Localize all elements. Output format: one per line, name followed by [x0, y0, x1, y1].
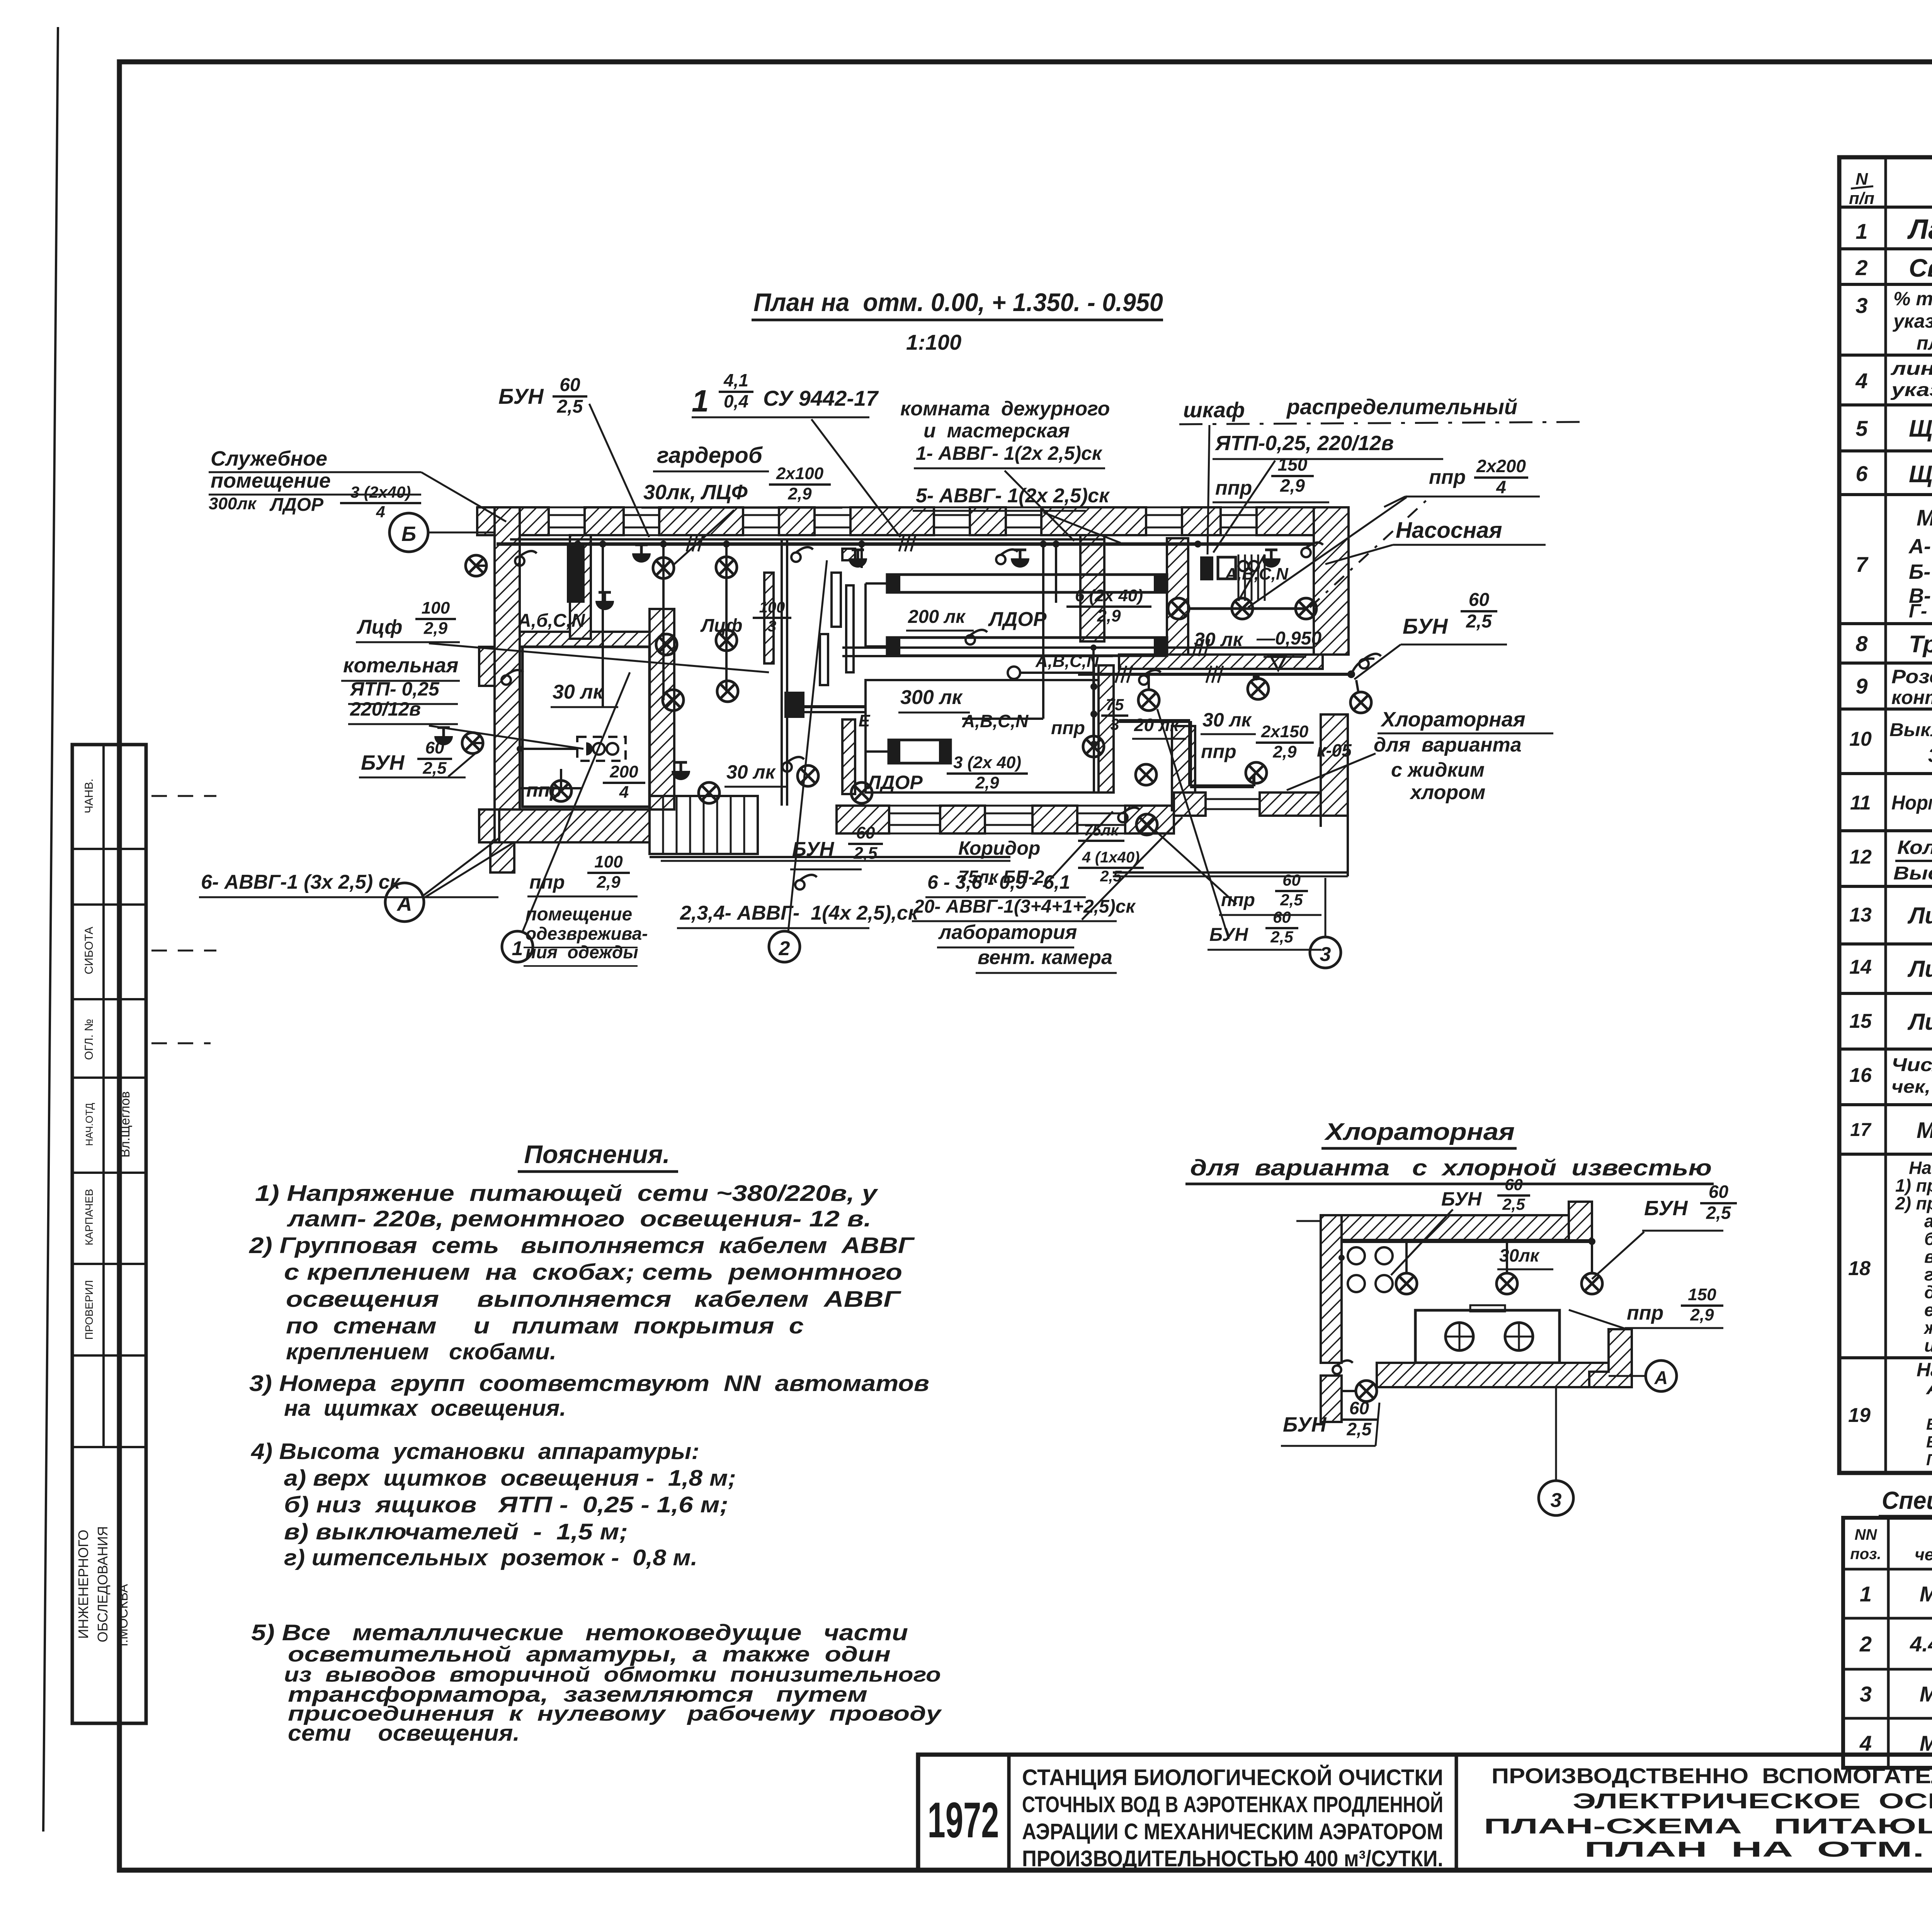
svg-text:8: 8: [1855, 631, 1868, 656]
svg-text:ПЛАН-СХЕМА ПИТАЮЩЕЙ СЕТИ: ПЛАН-СХЕМА ПИТАЮЩЕЙ СЕТИ: [1484, 1814, 1932, 1838]
svg-text:ПРОИЗВОДСТВЕННО ВСПОМОГАТЕЛЬН: ПРОИЗВОДСТВЕННО ВСПОМОГАТЕЛЬНОЕ_ЗДАНИЕ: [1492, 1764, 1932, 1788]
svg-text:60: 60: [1349, 1398, 1369, 1418]
svg-text:30 лк: 30 лк: [1202, 709, 1252, 731]
svg-text:18: 18: [1848, 1257, 1871, 1280]
svg-text:6 (2х 40): 6 (2х 40): [1075, 586, 1143, 605]
svg-text:9: 9: [1855, 674, 1867, 698]
svg-text:г.МОСКВА: г.МОСКВА: [116, 1584, 131, 1646]
svg-text:100: 100: [422, 599, 450, 617]
svg-text:Насосная: Насосная: [1396, 518, 1502, 543]
svg-text:СТОЧНЫХ ВОД В АЭРОТЕНКАХ ПРОДЛ: СТОЧНЫХ ВОД В АЭРОТЕНКАХ ПРОДЛЕННОЙ: [1022, 1792, 1443, 1817]
bottom labels: [199, 896, 498, 898]
svg-text:10: 10: [1849, 728, 1872, 750]
svg-text:А- номер группы, соответствую: А- номер группы, соответствующий номеру …: [1926, 1379, 1932, 1398]
svg-text:3) брызгонепроницаемый однопо: 3) брызгонепроницаемый однополюсный: [1928, 745, 1932, 766]
svg-text:15: 15: [1849, 1010, 1872, 1032]
axis circle 3: [1325, 878, 1327, 937]
svg-text:Линия сети аварийного освещ: Линия сети аварийного освещения: [1907, 956, 1932, 982]
svg-text:освещения выполняется ка: освещения выполняется кабелем АВВГ: [286, 1287, 901, 1312]
small plan wire: [1342, 1240, 1592, 1243]
svg-text:60: 60: [1282, 871, 1301, 889]
riser knot at corridor end: [804, 705, 866, 708]
svg-text:4,1: 4,1: [723, 370, 748, 390]
svg-text:Выключатель защищенный 1)одноп: Выключатель защищенный 1)однополюсный 2)…: [1889, 720, 1932, 740]
svg-text:а)- маркировка (N) линии;: а)- маркировка (N) линии;: [1924, 1211, 1932, 1231]
svg-text:5- АВВГ- 1(2х 2,5)ск: 5- АВВГ- 1(2х 2,5)ск: [916, 485, 1110, 507]
svg-text:200: 200: [609, 762, 638, 781]
svg-text:ПЛАН НА ОТМ. ±0.00.: ПЛАН НА ОТМ. ±0.00.: [1584, 1837, 1932, 1861]
svg-text:3: 3: [1551, 1489, 1562, 1512]
svg-text:ппр: ппр: [526, 779, 562, 801]
svg-text:линия из люминесцентных светил: линия из люминесцентных светильников на …: [1890, 359, 1932, 379]
BUN bottom center: [790, 869, 862, 871]
svg-text:к-05: к-05: [1317, 740, 1352, 760]
svg-text:2,5: 2,5: [1502, 1195, 1525, 1213]
svg-text:указывается на: указывается на: [1892, 310, 1932, 332]
left labels: LCF 100/2.9: [356, 641, 460, 643]
small plan axis A: [1609, 1375, 1646, 1377]
corridor top thin wall + wire: [842, 646, 1314, 649]
svg-text:3) Номера групп соответствую: 3) Номера групп соответствуют NN автомат…: [249, 1371, 929, 1396]
small plan bottom walls: [1589, 1329, 1632, 1387]
khloratornaya thick wire U: [1119, 719, 1190, 723]
svg-text:12: 12: [1849, 846, 1872, 868]
svg-text:А,В,С,N: А,В,С,N: [962, 711, 1029, 731]
svg-text:3: 3: [768, 618, 776, 635]
svg-text:ппр: ппр: [1429, 466, 1466, 488]
svg-text:СТАНЦИЯ БИОЛОГИЧЕСКОЙ ОЧИСТКИ: СТАНЦИЯ БИОЛОГИЧЕСКОЙ ОЧИСТКИ: [1022, 1765, 1443, 1790]
svg-text:2х200: 2х200: [1476, 456, 1526, 476]
svg-text:б) - расчетная нагрузка, квт;: б) - расчетная нагрузка, квт;: [1924, 1229, 1932, 1249]
svg-text:КАРПАЧЕВ: КАРПАЧЕВ: [83, 1189, 95, 1245]
svg-text:А,б,С,N: А,б,С,N: [517, 611, 585, 631]
label YATP-0,25 220/12v: [1213, 458, 1443, 460]
svg-text:БУН: БУН: [1441, 1188, 1482, 1210]
svg-text:Служебное: Служебное: [211, 447, 327, 470]
svg-text:Б- установленная мощность, к: Б- установленная мощность, квт;: [1909, 560, 1932, 583]
specification table: [1843, 1518, 1932, 1768]
svg-text:2,9: 2,9: [1280, 475, 1305, 495]
svg-text:на щитках освещения.: на щитках освещения.: [284, 1396, 566, 1421]
svg-text:4) Высота установки аппарату: 4) Высота установки аппаратуры:: [251, 1439, 699, 1464]
svg-text:2,5: 2,5: [557, 396, 583, 417]
svg-text:хлором: хлором: [1409, 781, 1485, 804]
svg-text:г) штепсельных розеток - 0,8: г) штепсельных розеток - 0,8 м.: [284, 1545, 697, 1570]
svg-text:и) - способ проводки: и) - способ проводки: [1924, 1335, 1932, 1355]
svg-text:Число проводов линии указыв: Число проводов линии указывается числом …: [1891, 1055, 1932, 1075]
svg-text:А: А: [396, 892, 412, 915]
svg-text:7: 7: [1855, 552, 1869, 577]
svg-text:2: 2: [1855, 255, 1867, 280]
nasosnaya interior stair detail: [1238, 554, 1240, 601]
small plan equipment (two tanks): [1446, 1336, 1473, 1338]
svg-text:ламп- 220в, ремонтного освеще: ламп- 220в, ремонтного освещения- 12 в.: [286, 1206, 871, 1231]
svg-text:60: 60: [1273, 908, 1291, 926]
36v drops and lamps: [1148, 674, 1150, 690]
svg-text:План на отм. 0.00, + 1.350. -: План на отм. 0.00, + 1.350. - 0.950: [753, 288, 1163, 316]
svg-text:помещение: помещение: [526, 904, 632, 925]
label nasosnaya: [1393, 544, 1546, 546]
svg-text:5: 5: [1855, 416, 1868, 440]
svg-text:Г- тип пункта или щитка: Г- тип пункта или щитка: [1909, 600, 1932, 622]
svg-text:Хлораторная: Хлораторная: [1324, 1119, 1515, 1145]
nasosnaya lamp line: [1188, 607, 1306, 610]
svg-text:ппр: ппр: [1051, 718, 1085, 738]
svg-text:60: 60: [1469, 590, 1490, 610]
svg-text:ппр: ппр: [1627, 1302, 1663, 1324]
svg-text:осветительной арматуры, а т: осветительной арматуры, а также один: [288, 1642, 891, 1666]
svg-text:Надписи на линиях группово: Надписи на линиях групповой сети:: [1917, 1359, 1932, 1381]
svg-text:4: 4: [1496, 477, 1506, 497]
wire to YATP box: [520, 787, 582, 789]
svg-text:150: 150: [1278, 454, 1308, 474]
svg-text:1- АВВГ- 1(2х 2,5)ск: 1- АВВГ- 1(2х 2,5)ск: [916, 442, 1103, 464]
svg-text:контактом брызгонепроница: контактом брызгонепроницаемая: [1891, 687, 1932, 708]
right wall bottom step: [1347, 816, 1349, 876]
svg-text:комната дежурного: комната дежурного: [900, 398, 1110, 420]
svg-text:ЯТП-0,25, 220/12в: ЯТП-0,25, 220/12в: [1214, 432, 1394, 455]
svg-text:ЛДОР: ЛДОР: [269, 495, 324, 515]
svg-text:А,В,С,N: А,В,С,N: [1035, 652, 1099, 671]
svg-text:котельная: котельная: [343, 654, 458, 677]
svg-text:Линия сети рабочего освещен: Линия сети рабочего освещения: [1907, 903, 1932, 929]
axis circle A: [423, 838, 498, 896]
svg-text:Б- марка кабеля (провода);: Б- марка кабеля (провода);: [1926, 1415, 1932, 1433]
junction dots on main wire: [574, 541, 581, 548]
stair block: [662, 796, 664, 854]
svg-text:одезврежива-: одезврежива-: [526, 923, 648, 944]
svg-text:БУН: БУН: [1283, 1413, 1327, 1436]
svg-text:75: 75: [1106, 696, 1124, 714]
svg-text:для варианта: для варианта: [1374, 734, 1522, 756]
svg-text:2,5: 2,5: [1347, 1419, 1372, 1439]
svg-text:креплением скобами.: креплением скобами.: [286, 1339, 556, 1364]
hook at right wall exit: [1351, 659, 1374, 675]
svg-text:в) выключателей - 1,5 м;: в) выключателей - 1,5 м;: [284, 1519, 628, 1544]
svg-text:чек, на двухпроводных линиях ч: чек, на двухпроводных линиях черточки не…: [1891, 1076, 1932, 1097]
svg-text:2,9: 2,9: [596, 873, 621, 892]
svg-text:13: 13: [1849, 904, 1872, 926]
corridor wire drop to lamp: [1092, 648, 1095, 736]
svg-text:4: 4: [376, 503, 385, 521]
svg-text:с креплением на скобах; сеть: с креплением на скобах; сеть ремонтного: [284, 1260, 902, 1285]
svg-text:60: 60: [856, 823, 875, 842]
svg-text:1:100: 1:100: [906, 330, 961, 354]
svg-text:1: 1: [1855, 219, 1867, 243]
nasosnaya level mark: [1192, 654, 1250, 656]
label 1 4,1/0,4 SU 9442-17: [692, 417, 869, 418]
svg-text:6: 6: [1855, 461, 1868, 486]
svg-text:3 (2х40): 3 (2х40): [350, 483, 411, 501]
axis circle B: [428, 532, 495, 534]
svg-text:ЛДОР: ЛДОР: [988, 608, 1047, 631]
svg-text:Нормируемая минимальная освеще: Нормируемая минимальная освещенность от …: [1891, 792, 1932, 814]
svg-text:ОГЛ. №: ОГЛ. №: [83, 1019, 95, 1060]
lab bar fixture LDOR 3: [866, 750, 889, 753]
svg-text:шкаф: шкаф: [1183, 398, 1245, 422]
svg-text:Б: Б: [401, 522, 416, 546]
small plan BUN label top: [1391, 1209, 1453, 1275]
svg-text:М3066: М3066: [1920, 1582, 1932, 1606]
svg-text:2,5: 2,5: [1466, 611, 1492, 632]
svg-text:БУН: БУН: [1403, 614, 1448, 638]
svg-text:для варианта с хлорной из: для варианта с хлорной известью: [1190, 1155, 1712, 1180]
svg-text:2) Групповая сеть выполняет: 2) Групповая сеть выполняется кабелем АВ…: [249, 1233, 915, 1258]
svg-text:Коридор: Коридор: [958, 837, 1040, 859]
svg-text:2,5: 2,5: [422, 759, 447, 778]
svg-text:ПРОВЕРИЛ: ПРОВЕРИЛ: [83, 1280, 95, 1340]
svg-text:60: 60: [425, 738, 444, 757]
label garderob: [653, 471, 769, 473]
svg-text:2,5: 2,5: [1280, 891, 1303, 909]
svg-text:ЧАНВ.: ЧАНВ.: [83, 779, 95, 813]
svg-text:2,9: 2,9: [787, 485, 812, 503]
svg-text:Щиток групповой аварийного о: Щиток групповой аварийного освещения: [1909, 461, 1932, 488]
small plan lamp 3: [1497, 1269, 1553, 1270]
svg-text:Хлораторная: Хлораторная: [1380, 708, 1526, 731]
svg-text:СИБОТА: СИБОТА: [83, 927, 95, 974]
svg-text:3: 3: [1320, 943, 1331, 966]
svg-text:БУН: БУН: [498, 384, 544, 408]
label sluzhebnoe pomeshchenie: [209, 471, 421, 473]
svg-text:2) при наличии схемы:: 2) при наличии схемы:: [1895, 1193, 1932, 1213]
svg-text:2: 2: [779, 937, 790, 960]
sheet edge line (left): [43, 27, 58, 1832]
svg-text:2,5: 2,5: [1270, 928, 1293, 946]
svg-text:е) - марка проводника: е) - марка проводника: [1924, 1300, 1932, 1320]
svg-text:1: 1: [512, 937, 523, 960]
svg-text:% тип светильника: % тип светильника: [1893, 288, 1932, 310]
label BUN right: [1401, 644, 1507, 646]
svg-text:30лк: 30лк: [1499, 1245, 1540, 1265]
svg-text:ЛДОР: ЛДОР: [866, 772, 923, 793]
svg-text:Розетка штепсельная двухполюс: Розетка штепсельная двухполюсная с зазем…: [1891, 666, 1932, 687]
svg-text:по стенам и плитам пок: по стенам и плитам покрытия с: [286, 1313, 804, 1338]
svg-text:3: 3: [1110, 715, 1119, 733]
khloratornaya bottom wall: [1206, 798, 1260, 800]
svg-text:4: 4: [1859, 1731, 1872, 1755]
svg-text:1: 1: [692, 384, 709, 418]
svg-text:БУН: БУН: [1644, 1197, 1688, 1220]
svg-text:150: 150: [1688, 1285, 1716, 1304]
svg-text:60: 60: [1709, 1182, 1729, 1202]
small plan axis 3: [1555, 1387, 1557, 1481]
svg-text:Количество х мощность лампы: Количество х мощность лампы в светильник…: [1897, 837, 1932, 858]
36v remote line: [1078, 673, 1351, 676]
label khloratornaya zhidkiy chlor: [1378, 733, 1553, 735]
svg-text:б) низ ящиков ЯТП - 0,25 -: б) низ ящиков ЯТП - 0,25 - 1,6 м;: [284, 1492, 728, 1517]
svg-text:НАЧ.ОТД: НАЧ.ОТД: [83, 1103, 95, 1146]
small plan BUN bottom label: [1281, 1445, 1376, 1447]
svg-text:16: 16: [1849, 1064, 1872, 1087]
svg-text:Лцф: Лцф: [700, 616, 742, 636]
svg-text:2: 2: [1859, 1632, 1872, 1656]
svg-text:2,9: 2,9: [1272, 743, 1297, 762]
svg-text:М3067: М3067: [1920, 1731, 1932, 1755]
title block: [918, 1755, 1932, 1870]
svg-text:19: 19: [1848, 1404, 1871, 1427]
svg-text:ппр: ппр: [1215, 477, 1252, 499]
svg-text:4: 4: [1855, 369, 1867, 393]
svg-text:4: 4: [619, 783, 629, 802]
svg-text:2х100: 2х100: [776, 464, 824, 483]
svg-text:Лампа накаливания: Лампа накаливания: [1907, 214, 1932, 245]
svg-text:указывается число светильников: указывается число светильников в линии и…: [1890, 380, 1932, 400]
svg-text:а) верх щитков освещения -: а) верх щитков освещения - 1,8 м;: [284, 1466, 736, 1491]
building top wall with window piers: [549, 514, 585, 516]
svg-text:300 лк: 300 лк: [900, 686, 963, 709]
svg-text:п/п: п/п: [1849, 189, 1874, 208]
ppr 75/3 20lk labels: [1132, 738, 1186, 740]
svg-text:сети освещения.: сети освещения.: [288, 1721, 520, 1746]
vertical wire with dots right of corridor: [1093, 665, 1095, 792]
svg-text:Пояснения.: Пояснения.: [524, 1140, 670, 1168]
svg-text:и мастерская: и мастерская: [923, 420, 1070, 442]
svg-text:6- АВВГ-1 (3х 2,5) ск: 6- АВВГ-1 (3х 2,5) ск: [201, 871, 401, 893]
svg-text:30 лк: 30 лк: [726, 761, 776, 783]
svg-text:Линия сети 36в и ниже: Линия сети 36в и ниже: [1907, 1009, 1932, 1035]
svg-text:100: 100: [594, 852, 623, 871]
svg-text:ЭЛЕКТРИЧЕСКОЕ ОСВЕЩЕНИЕ.: ЭЛЕКТРИЧЕСКОЕ ОСВЕЩЕНИЕ.: [1573, 1789, 1932, 1813]
small plan ppr label: [1625, 1327, 1723, 1329]
svg-text:чертежа: чертежа: [1915, 1545, 1932, 1564]
svg-text:Е: Е: [859, 711, 871, 730]
svg-text:60: 60: [1505, 1175, 1523, 1194]
wire drops: [602, 544, 604, 707]
svg-text:гардероб: гардероб: [657, 443, 763, 468]
svg-text:г) - расчетный ток, а;: г) - расчетный ток, а;: [1924, 1264, 1932, 1284]
label BUN left lower: [359, 777, 466, 779]
svg-text:распределительный: распределительный: [1286, 395, 1517, 419]
svg-text:3: 3: [1860, 1682, 1872, 1706]
svg-text:В- сечение кабеля (провода);: В- сечение кабеля (провода);: [1926, 1433, 1932, 1451]
svg-text:NN: NN: [1855, 1526, 1878, 1543]
svg-text:2х150: 2х150: [1261, 722, 1309, 741]
svg-text:1) Напряжение питающей сети: 1) Напряжение питающей сети ~380/220в, у: [255, 1181, 878, 1206]
svg-text:ОБСЛЕДОВАНИЯ: ОБСЛЕДОВАНИЯ: [95, 1526, 111, 1643]
svg-text:11: 11: [1850, 792, 1871, 814]
svg-text:4 (1х40): 4 (1х40): [1082, 849, 1140, 866]
axis circle 1: [522, 672, 630, 932]
svg-text:2,3,4- АВВГ- 1(4х 2,5),ск: 2,3,4- АВВГ- 1(4х 2,5),ск: [680, 902, 919, 924]
svg-text:плане.: плане.: [1917, 332, 1932, 354]
svg-text:Маркировка пунктов и щитков о: Маркировка пунктов и щитков освещения:: [1917, 505, 1932, 531]
corridor partition (double): [781, 538, 783, 806]
svg-text:Трансформатор понижающий в: Трансформатор понижающий в ящике: [1909, 631, 1932, 658]
garderob room 30lk: [724, 786, 788, 788]
svg-text:2,5: 2,5: [853, 844, 878, 863]
zigzag connectors to bars: [866, 582, 887, 585]
leader: [589, 404, 649, 537]
svg-text:Надписи на линиях питающей: Надписи на линиях питающей сети: [1909, 1158, 1932, 1178]
svg-text:2,9: 2,9: [1690, 1306, 1714, 1325]
svg-text:ппр: ппр: [1201, 741, 1236, 762]
svg-text:Высота подвеса от пола до низ: Высота подвеса от пола до низа светильни…: [1893, 863, 1932, 884]
svg-text:N: N: [1855, 170, 1868, 189]
svg-text:2,9: 2,9: [1097, 607, 1121, 626]
svg-text:60: 60: [560, 375, 580, 395]
legend table (Наименование / обозначение): [1839, 157, 1932, 1473]
axis circle 2: [788, 560, 827, 931]
lab labels: [925, 896, 1086, 898]
label ppr 150/2.9: [1213, 502, 1329, 503]
svg-text:Вл.Щеглов: Вл.Щеглов: [118, 1091, 133, 1158]
LDOR room labels: [906, 630, 974, 632]
svg-text:Г- способ проводки: Г- способ проводки: [1926, 1451, 1932, 1469]
svg-text:1972: 1972: [928, 1792, 999, 1848]
svg-text:А: А: [1654, 1368, 1668, 1388]
svg-text:17: 17: [1850, 1120, 1872, 1140]
svg-text:поз.: поз.: [1850, 1546, 1881, 1563]
ppr 60/2.5 right: [1219, 914, 1321, 916]
small plan top-right wall step: [1569, 1202, 1592, 1240]
svg-text:Светильник: Светильник: [1909, 253, 1932, 282]
label kotelnaya: [341, 680, 460, 682]
porch lines bottom right: [1113, 871, 1348, 874]
svg-text:БУН: БУН: [1209, 925, 1248, 945]
left signature stamp table: [72, 745, 216, 1723]
svg-text:ПРОИЗВОДИТЕЛЬНОСТЬЮ 400 м³/СУТ: ПРОИЗВОДИТЕЛЬНОСТЬЮ 400 м³/СУТКИ.: [1022, 1846, 1443, 1871]
svg-text:3: 3: [1855, 293, 1867, 318]
svg-text:1: 1: [1860, 1582, 1872, 1606]
svg-text:ж) - сечение проводника, мм²: ж) - сечение проводника, мм²: [1923, 1318, 1932, 1338]
svg-text:Лцф: Лцф: [356, 616, 402, 638]
30lk ppr 2x150 labels: [1201, 733, 1256, 735]
main lighting wire along top wall: [497, 542, 1314, 546]
nasosnaya leader to ppr 2x200/4: [1310, 497, 1430, 607]
small plan lamp bottom: [1342, 1390, 1355, 1392]
svg-text:0,4: 0,4: [724, 391, 748, 411]
svg-text:М3067: М3067: [1920, 1682, 1932, 1706]
svg-text:ппр: ппр: [1221, 890, 1255, 910]
room texts left: [551, 706, 618, 708]
svg-text:30лк, ЛЦФ: 30лк, ЛЦФ: [643, 481, 748, 504]
svg-text:—0,950: —0,950: [1256, 628, 1321, 649]
svg-text:лаборатория: лаборатория: [938, 921, 1077, 944]
svg-text:4.407-32: 4.407-32: [1910, 1632, 1932, 1656]
svg-text:20 лк: 20 лк: [1134, 715, 1180, 735]
label shkaf raspredelitelny: [1179, 422, 1580, 424]
small plan top wall: [1296, 1220, 1321, 1222]
svg-text:14: 14: [1849, 956, 1872, 978]
svg-text:200 лк: 200 лк: [908, 607, 966, 627]
small plan BUN label right: [1642, 1230, 1723, 1232]
svg-text:ния одежды: ния одежды: [526, 942, 638, 962]
lamp brackets on outside wall: [476, 565, 486, 567]
label ppr 2x200/4: [1405, 496, 1540, 498]
svg-text:д) - длина участка, м;: д) - длина участка, м;: [1924, 1282, 1932, 1302]
svg-text:с жидким: с жидким: [1391, 759, 1485, 781]
svg-text:2,9: 2,9: [975, 774, 999, 792]
entrance landing lines: [650, 856, 1010, 858]
bottom wall mid section: [889, 813, 940, 815]
svg-text:вент. камера: вент. камера: [978, 946, 1112, 969]
svg-text:Спецификация изделий монта: Спецификация изделий монтажно-заготовите…: [1882, 1486, 1932, 1514]
svg-text:220/12в: 220/12в: [350, 698, 421, 720]
svg-text:30 лк: 30 лк: [553, 681, 604, 703]
svg-text:2,9: 2,9: [423, 619, 448, 638]
YATP dashed box with transformer: [577, 737, 626, 761]
svg-text:Щиток групповой рабочего ос: Щиток групповой рабочего освещения: [1909, 415, 1932, 442]
svg-text:300лк: 300лк: [209, 494, 257, 513]
wire verticals in rooms: [662, 638, 665, 700]
label 5-AVVG: [913, 510, 1086, 512]
svg-text:в) - коэффициент мощности;: в) - коэффициент мощности;: [1924, 1247, 1932, 1267]
svg-text:ИНЖЕНЕРНОГО: ИНЖЕНЕРНОГО: [75, 1530, 91, 1639]
svg-text:3 (2х 40): 3 (2х 40): [953, 753, 1021, 772]
svg-text:1) при отсутствии схемы п: 1) при отсутствии схемы питающей сети;: [1895, 1175, 1932, 1196]
svg-text:А- номер пункта или щитка: А- номер пункта или щитка по плану;: [1908, 535, 1932, 558]
